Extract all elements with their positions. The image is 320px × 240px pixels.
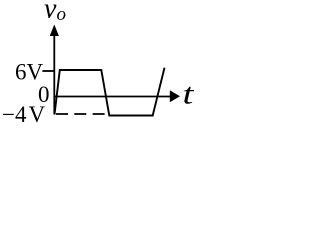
-4V dashed line xyxy=(56,113,105,115)
svg-text:−4V: −4V xyxy=(2,102,45,127)
v-axis vertical line xyxy=(53,34,55,115)
svg-text:o: o xyxy=(57,4,67,25)
svg-text:v: v xyxy=(44,0,57,25)
waveform (clipped output wave) xyxy=(55,68,165,116)
svg-text:6V: 6V xyxy=(15,60,44,85)
t-axis line xyxy=(55,96,172,98)
6V tick xyxy=(42,70,55,72)
t-axis arrowhead xyxy=(170,90,180,102)
svg-text:t: t xyxy=(183,77,195,111)
v-axis arrowhead xyxy=(50,25,59,37)
